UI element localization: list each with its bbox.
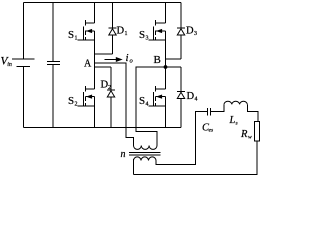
svg-text:S: S	[68, 29, 74, 41]
svg-text:B: B	[154, 54, 161, 66]
svg-text:1: 1	[75, 36, 78, 42]
svg-text:D: D	[187, 91, 195, 102]
svg-text:s: s	[236, 121, 238, 127]
svg-text:S: S	[139, 29, 145, 41]
svg-text:D: D	[186, 26, 194, 37]
svg-text:R: R	[240, 129, 248, 140]
svg-text:3: 3	[146, 36, 149, 42]
svg-text:4: 4	[146, 102, 149, 108]
svg-text:4: 4	[195, 97, 198, 103]
svg-text:1: 1	[125, 31, 128, 37]
svg-text:2: 2	[75, 102, 78, 108]
svg-text:i: i	[126, 52, 129, 64]
svg-text:S: S	[139, 95, 145, 107]
svg-text:3: 3	[194, 31, 197, 37]
svg-text:D: D	[117, 26, 125, 37]
svg-text:es: es	[209, 128, 214, 134]
svg-text:w: w	[248, 135, 252, 141]
svg-text:S: S	[68, 95, 74, 107]
svg-text:2: 2	[108, 85, 111, 91]
svg-text:n: n	[121, 149, 126, 160]
svg-text:A: A	[84, 59, 92, 70]
svg-text:in: in	[7, 62, 12, 68]
svg-text:L: L	[229, 115, 236, 126]
